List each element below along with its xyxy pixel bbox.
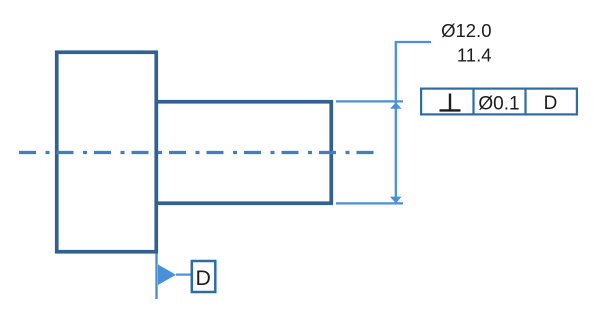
svg-text:11.4: 11.4 bbox=[457, 44, 492, 65]
svg-text:D: D bbox=[544, 93, 558, 114]
svg-text:D: D bbox=[196, 266, 211, 290]
svg-text:Ø12.0: Ø12.0 bbox=[441, 20, 491, 41]
svg-text:Ø0.1: Ø0.1 bbox=[478, 94, 519, 115]
